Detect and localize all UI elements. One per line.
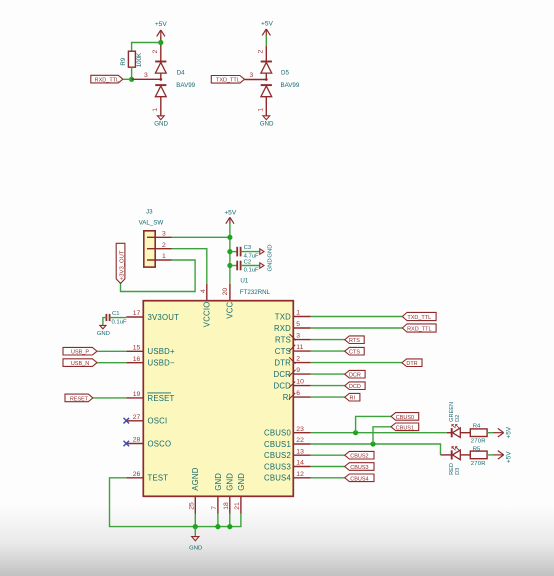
svg-text:GND: GND [260, 121, 274, 128]
svg-text:1: 1 [162, 253, 166, 260]
svg-text:+3V3_OUT: +3V3_OUT [119, 250, 125, 280]
diode D5 upper half [261, 62, 272, 74]
junction node RXD_TTL/R9 [129, 77, 134, 82]
wire R9 bottom to node [131, 67, 133, 79]
capacitor C2 [230, 261, 260, 271]
U1 pin 18 GND (bottom) [223, 473, 235, 514]
svg-text:16: 16 [133, 356, 141, 363]
global label USB_N [63, 359, 97, 367]
wire CBUS4 to label [311, 477, 345, 479]
global label DCR [345, 370, 365, 378]
svg-text:1: 1 [296, 310, 300, 317]
svg-text:3: 3 [250, 72, 254, 79]
svg-text:VCC: VCC [226, 301, 235, 318]
svg-text:6: 6 [296, 390, 300, 397]
value BAV99 (D5) [281, 82, 300, 89]
power +5V (top circuit 1) [155, 21, 168, 37]
svg-text:CBUS4: CBUS4 [264, 474, 291, 483]
svg-text:12: 12 [296, 471, 304, 478]
wire RTS to label [311, 339, 345, 341]
J3 pin 2 [147, 242, 172, 249]
U1 pin 15 USBD+ [126, 344, 175, 356]
pin number 1 (D4) [152, 108, 159, 112]
svg-text:GND: GND [267, 245, 273, 258]
svg-text:OSCO: OSCO [148, 439, 172, 448]
slash mark pin 3 [290, 334, 296, 340]
svg-text:GND: GND [226, 473, 235, 491]
svg-text:BAV99: BAV99 [281, 82, 300, 89]
svg-text:26: 26 [133, 471, 141, 478]
svg-text:0.1uF: 0.1uF [244, 267, 259, 273]
no-connect X pin 28 [124, 441, 130, 447]
svg-text:RTS: RTS [349, 338, 360, 344]
global label DCD [345, 382, 365, 390]
svg-text:VAL_SW: VAL_SW [139, 219, 164, 226]
slash mark pin 2 [289, 357, 295, 364]
wire DCD to label [311, 385, 345, 387]
label R4 [473, 423, 481, 429]
resistor R5 [470, 451, 487, 459]
wire to LED D3 [441, 454, 452, 456]
slash mark pin 10 [289, 382, 295, 388]
wire CBUS0 net [311, 432, 447, 434]
ground (top circuit 1) [154, 116, 168, 128]
svg-text:5: 5 [296, 321, 300, 328]
label C3 [244, 245, 252, 251]
U1 pin 25 AGND (bottom) [188, 467, 200, 513]
junction CBUS1 [370, 441, 375, 446]
U1 pin 6 RI [283, 390, 311, 402]
value 0.1uF (C1) [112, 319, 127, 325]
junction CBUS0 [353, 430, 358, 435]
global label RXD_TTL (right) [402, 324, 436, 333]
capacitor C1 [103, 314, 126, 325]
wire J3 pin2 to VCCIO [172, 249, 207, 284]
label D5 [281, 70, 289, 77]
wire D5 lower to GND [265, 97, 267, 116]
junction ground bus / AGND [193, 524, 198, 529]
wire CBUS2 to label [311, 454, 345, 456]
global label CTS [345, 347, 365, 355]
wire RI to label [311, 396, 345, 398]
svg-text:0.1uF: 0.1uF [112, 319, 127, 325]
svg-text:USBD−: USBD− [148, 359, 175, 368]
wire D4 upper to node [160, 73, 162, 79]
wire CBUS1 branch to label [373, 427, 391, 444]
global label RESET [65, 394, 93, 402]
ground (top circuit 2) [260, 116, 274, 128]
wire R5 to +5V [487, 454, 493, 456]
pin 3 wire to D4 [132, 78, 161, 80]
svg-text:USBD+: USBD+ [148, 347, 175, 356]
svg-text:+5V: +5V [261, 21, 274, 28]
wire D2 to R4 [460, 432, 470, 434]
svg-text:D5: D5 [281, 70, 289, 77]
global label RXD_TTL [91, 75, 123, 83]
svg-text:RESET: RESET [148, 394, 175, 403]
no-connect X pin 27 [124, 418, 130, 424]
J3 pin 1 [147, 253, 172, 260]
wire RXD_TTL to junction [123, 78, 132, 80]
svg-text:TXD: TXD [275, 312, 291, 321]
wire GND7 stub [217, 514, 219, 527]
wire AGND stub [194, 514, 196, 527]
value 100K [136, 52, 143, 67]
wire to LED D2 [447, 432, 452, 434]
wire to D5 pin 2 [265, 46, 267, 61]
diode D4 upper half [155, 62, 166, 74]
svg-text:RI: RI [283, 393, 291, 402]
svg-text:RTS: RTS [275, 336, 291, 345]
svg-text:+5V: +5V [505, 426, 512, 438]
junction ground bus / GND18 [227, 524, 232, 529]
global label DTR [402, 359, 422, 367]
svg-text:CBUS2: CBUS2 [350, 454, 368, 460]
wire CBUS3 to label [311, 466, 345, 468]
wire +5V stem (green) [265, 36, 267, 47]
op-amp U1 FT232RNL body [143, 301, 293, 497]
svg-text:7: 7 [211, 506, 218, 510]
svg-text:GND: GND [189, 545, 202, 551]
wire D4 lower to GND [160, 97, 162, 116]
U1 pin 11 CTS [275, 344, 311, 356]
svg-text:17: 17 [133, 310, 141, 317]
node dot D5 [265, 78, 268, 81]
value FT232RNL [240, 289, 271, 296]
svg-text:AGND: AGND [191, 467, 200, 490]
svg-text:CBUS1: CBUS1 [396, 425, 414, 431]
global label CBUS4 [345, 474, 374, 482]
value VAL_SW [139, 219, 164, 226]
svg-text:R4: R4 [473, 423, 481, 429]
junction +5V/C2 [227, 263, 232, 268]
svg-text:CBUS3: CBUS3 [350, 465, 368, 471]
global label CBUS2 [345, 451, 374, 459]
U1 pin 13 CBUS2 [264, 448, 311, 460]
svg-text:USB_N: USB_N [71, 361, 89, 367]
svg-text:RXD: RXD [274, 324, 291, 333]
svg-text:20: 20 [222, 288, 229, 296]
diode D5 lower half [261, 85, 272, 97]
power +5V (VCC rail) [224, 210, 237, 225]
label R9 [120, 57, 127, 65]
U1 pin 27 OSCI [126, 414, 167, 426]
svg-text:+5V: +5V [505, 451, 512, 463]
U1 pin 20 VCC [222, 284, 234, 319]
wire CBUS0 branch to label [356, 416, 391, 432]
svg-text:GND: GND [214, 473, 223, 491]
svg-text:RXD_TTL: RXD_TTL [407, 327, 431, 333]
U1 pin 1 TXD [275, 310, 311, 322]
wire DTR to label [311, 362, 402, 364]
global label USB_P [63, 347, 97, 355]
U1 pin 12 CBUS4 [264, 471, 311, 483]
global label CBUS1 [391, 423, 419, 431]
U1 pin 7 GND (bottom) [211, 473, 223, 514]
svg-text:CBUS0: CBUS0 [396, 415, 414, 421]
global label RI [345, 393, 360, 401]
svg-text:4: 4 [200, 289, 207, 293]
label D3 / RED [449, 463, 461, 475]
svg-text:3: 3 [296, 333, 300, 340]
svg-text:25: 25 [188, 502, 195, 510]
svg-text:3: 3 [144, 72, 148, 79]
svg-text:9: 9 [296, 367, 300, 374]
svg-text:CBUS2: CBUS2 [264, 451, 291, 460]
svg-text:CTS: CTS [275, 347, 291, 356]
ground flag at C2 [260, 258, 274, 271]
svg-text:RI: RI [350, 396, 356, 402]
svg-text:2: 2 [296, 356, 300, 363]
pin number 1 (D5) [258, 108, 265, 112]
svg-text:C1: C1 [112, 311, 120, 317]
svg-text:DCR: DCR [349, 373, 361, 379]
power +5V (R4) [493, 426, 512, 438]
U1 pin 21 GND (bottom) [234, 473, 246, 514]
svg-text:2: 2 [152, 50, 159, 54]
svg-text:DCD: DCD [349, 384, 361, 390]
svg-text:14: 14 [296, 460, 304, 467]
junction +5V/J3 [227, 235, 232, 240]
slash mark pin 6 [289, 393, 295, 399]
global label +3V3_OUT [116, 243, 125, 283]
svg-text:RXD_TTL: RXD_TTL [95, 78, 119, 84]
svg-text:OSCI: OSCI [148, 417, 168, 426]
wire +5V rail down to VCC [229, 224, 231, 284]
svg-text:+5V: +5V [155, 21, 168, 28]
svg-text:22: 22 [296, 437, 304, 444]
label U1 [240, 278, 248, 285]
wire RESET to pin 19 [93, 397, 126, 399]
svg-text:FT232RNL: FT232RNL [240, 289, 271, 296]
svg-text:21: 21 [234, 502, 241, 510]
U1 pin 2 DTR [274, 356, 310, 368]
svg-text:DCR: DCR [274, 370, 292, 379]
svg-text:C2: C2 [244, 259, 252, 265]
svg-text:GND: GND [237, 473, 246, 491]
wire D5 upper to node [265, 73, 267, 79]
svg-text:J3: J3 [146, 208, 153, 215]
LED D2 (green) [452, 425, 461, 438]
svg-text:USB_P: USB_P [71, 350, 89, 356]
svg-text:3V3OUT: 3V3OUT [148, 313, 180, 322]
svg-text:GND: GND [97, 331, 110, 337]
U1 pin 28 OSCO [126, 437, 171, 449]
svg-text:GND: GND [267, 258, 273, 271]
junction +5V/C3 [227, 249, 232, 254]
wire GND18 stub [229, 514, 231, 527]
U1 pin 16 USBD&#8722; [126, 356, 175, 368]
svg-text:CBUS0: CBUS0 [264, 429, 291, 438]
svg-text:23: 23 [296, 426, 304, 433]
wire TEST to ground bus [110, 478, 241, 527]
wire J3 pin1 to +3V3_OUT [121, 260, 196, 292]
svg-text:11: 11 [296, 344, 303, 351]
svg-text:+5V: +5V [224, 210, 237, 217]
label C2 [244, 259, 252, 265]
wire CBUS1 net [311, 444, 441, 455]
svg-text:100K: 100K [136, 52, 143, 67]
U1 pin 3 RTS [275, 333, 311, 345]
junction ground bus / GND7 [215, 524, 220, 529]
value BAV99 (D4) [176, 82, 195, 89]
svg-text:R9: R9 [120, 57, 127, 65]
junction node +5V/R9 [158, 40, 163, 45]
svg-text:10: 10 [296, 379, 304, 386]
svg-text:DTR: DTR [406, 361, 417, 367]
svg-text:CBUS3: CBUS3 [264, 462, 291, 471]
svg-text:TEST: TEST [148, 474, 169, 483]
pin number 2 (D4) [152, 50, 159, 54]
svg-text:27: 27 [133, 414, 141, 421]
svg-text:18: 18 [223, 502, 230, 510]
U1 pin 19 RESET [126, 391, 174, 403]
power +5V (R5) [493, 451, 512, 463]
wire USB_N to pin 16 [97, 362, 126, 364]
label C1 [112, 311, 120, 317]
slash mark pin 11 [289, 345, 295, 352]
wire R4 to +5V [487, 432, 493, 434]
U1 pin 5 RXD [274, 321, 311, 333]
svg-text:CBUS1: CBUS1 [264, 440, 291, 449]
U1 pin 26 TEST [126, 471, 168, 483]
pin number 3 (D4) [144, 72, 148, 79]
svg-text:CBUS4: CBUS4 [350, 476, 368, 482]
svg-text:GND: GND [154, 121, 168, 128]
LED D3 (red) [452, 447, 461, 460]
svg-text:CTS: CTS [349, 350, 360, 356]
svg-text:270R: 270R [471, 439, 486, 445]
svg-text:D3: D3 [455, 468, 461, 475]
svg-text:TXD_TTL: TXD_TTL [407, 315, 431, 321]
pin number 2 (D5) [258, 50, 265, 54]
wire D3 to R5 [460, 454, 470, 456]
wire J3 pin3 to +5V rail [172, 236, 230, 238]
svg-text:28: 28 [133, 437, 141, 444]
svg-text:D4: D4 [177, 70, 185, 77]
resistor R4 [470, 429, 487, 437]
svg-text:2: 2 [258, 50, 265, 54]
global label CBUS0 [391, 413, 419, 421]
label R5 [473, 447, 481, 453]
J3 pin 3 [147, 230, 172, 237]
U1 pin 10 DCD [274, 379, 311, 391]
U1 pin 22 CBUS1 [264, 437, 311, 449]
capacitor C3 [230, 247, 260, 257]
wire RXD to label [311, 327, 403, 329]
svg-text:C3: C3 [244, 245, 252, 251]
svg-text:1: 1 [258, 108, 265, 112]
U1 pin 14 CBUS3 [264, 460, 311, 472]
value 4.7uF [244, 254, 259, 260]
U1 pin 9 DCR [274, 367, 311, 379]
global label RTS [345, 336, 365, 344]
U1 pin 4 VCCIO [200, 284, 212, 327]
svg-text:R5: R5 [473, 447, 481, 453]
svg-text:1: 1 [152, 108, 159, 112]
svg-text:BAV99: BAV99 [176, 82, 195, 89]
wire DCR to label [311, 373, 345, 375]
global label CBUS3 [345, 463, 374, 471]
value 0.1uF [244, 267, 259, 273]
diode D4 lower half [155, 85, 166, 97]
global label TXD_TTL [211, 76, 244, 84]
U1 pin 23 CBUS0 [264, 426, 311, 438]
svg-text:U1: U1 [240, 278, 248, 285]
wire junction to R9 top [132, 43, 161, 52]
svg-text:19: 19 [133, 391, 141, 398]
label J3 [146, 208, 153, 215]
connector J3 body [144, 231, 155, 267]
U1 pin 17 3V3OUT [126, 310, 179, 322]
svg-text:RESET: RESET [70, 396, 89, 402]
ground at C1 [97, 325, 110, 337]
resistor R9 [128, 51, 135, 67]
value 270R (R5) [471, 461, 486, 467]
svg-text:13: 13 [296, 448, 304, 455]
value 270R (R4) [471, 439, 486, 445]
svg-text:270R: 270R [471, 461, 486, 467]
node dot D4 [159, 78, 162, 81]
label D2 / GREEN [449, 402, 461, 422]
wire USB_P to pin 15 [97, 350, 126, 352]
svg-text:VCCIO: VCCIO [203, 301, 212, 327]
pin number 3 (D5) [250, 72, 254, 79]
slash mark pin 9 [289, 370, 296, 377]
ground flag at C3 [260, 245, 274, 258]
svg-text:D2: D2 [455, 415, 461, 422]
svg-text:2: 2 [162, 242, 166, 249]
svg-text:DTR: DTR [274, 359, 291, 368]
power +5V (top circuit 2) [261, 21, 274, 37]
label D4 [177, 70, 185, 77]
svg-text:3: 3 [162, 230, 166, 237]
ground (bottom) [189, 527, 202, 552]
global label TXD_TTL (right) [402, 312, 436, 321]
pin 3 wire to D5 [245, 79, 267, 81]
svg-text:TXD_TTL: TXD_TTL [216, 78, 240, 84]
wire CTS to label [311, 350, 345, 352]
wire +5V to D4 pin 2 [160, 37, 162, 62]
svg-text:15: 15 [133, 344, 141, 351]
svg-text:DCD: DCD [274, 382, 292, 391]
wire TXD to label [311, 316, 403, 318]
